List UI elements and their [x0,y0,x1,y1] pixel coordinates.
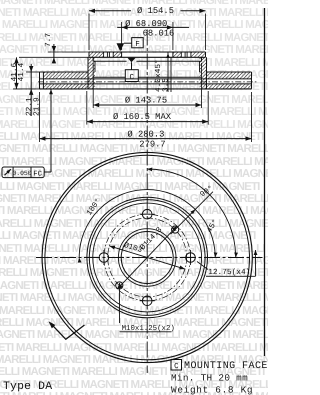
svg-text:41.4: 41.4 [17,62,26,81]
wheel bolt hole 4 (D12.75) [99,253,109,263]
svg-text:MAGNETI MARELLI MAGNETI MARELL: MAGNETI MARELLI MAGNETI MARELLI MAGNETI … [0,292,268,304]
dimension D280.3 / 279.7 (outer diameter) [40,138,252,140]
svg-text:Type DA: Type DA [3,381,52,393]
angular dimension arc 0-90 deg [147,169,236,258]
leader and label M10x1.25(x2) for service holes [119,283,121,323]
leader from tolerance frame to friction surface [44,171,51,173]
dimension D160.5 MAX [87,121,208,123]
service hole M10 (SW) [116,282,123,289]
wheel bolt hole circle (dash-dot PCD) [104,214,191,301]
svg-text:279.7: 279.7 [139,140,165,150]
datum C symbol on mounting face [127,58,135,63]
svg-text:21.9: 21.9 [32,97,41,116]
hub step line to datum C box [93,76,125,78]
centre bore circle with chamfer [121,232,173,284]
runout tolerance frame 0.050 FC [2,167,44,178]
dimension 22.1/21.9 (ring thickness) [30,64,32,116]
section view: hat plate (hatched) with bore and bolt-hole gaps [89,52,104,57]
svg-text:C: C [174,363,179,371]
svg-text:3.5: 3.5 [161,78,170,92]
dimension 41.6/41.4 (overall height) [16,57,18,89]
dimension D154.5 (hat outer diameter) [89,10,131,12]
datum F symbol on hat face [117,43,125,51]
dimension D143.75 [93,104,201,106]
dimension D114.3 line across centre [117,226,177,289]
svg-text:MAGNETI MARELLI MAGNETI MARELL: MAGNETI MARELLI MAGNETI MARELLI MAGNETI … [0,205,268,217]
svg-text:MAGNETI MARELLI MAGNETI MARELL: MAGNETI MARELLI MAGNETI MARELLI MAGNETI … [0,218,268,230]
svg-text:7.7: 7.7 [44,33,53,47]
leader and label 12.75(x4) for bolt holes [197,262,208,270]
svg-text:0.050: 0.050 [12,170,31,177]
section horizontal centerline (dash-dot) [38,81,257,83]
svg-text:12.75(x4): 12.75(x4) [208,268,250,277]
svg-text:MOUNTING FACE: MOUNTING FACE [184,361,268,372]
chamfer leader 4.0x45 and 3.5 [167,53,169,93]
svg-text:MAGNETI MARELLI MAGNETI MARELL: MAGNETI MARELLI MAGNETI MARELLI MAGNETI … [0,255,268,267]
svg-text:Min. TH 20 mm: Min. TH 20 mm [171,372,248,383]
right frame border line [264,8,266,356]
hidden bolt hole ticks in gaps [106,52,108,57]
wheel bolt hole 1 (D12.75) [142,209,152,219]
svg-text:FC: FC [33,170,42,178]
dimension 7.7 (pad height) [48,51,89,53]
bore edges in hat plate [121,52,123,57]
mounting face line under hat [93,60,126,62]
left friction ring (hatched, with vent lane) [44,72,89,79]
left wall of hat (hatched) [88,57,95,89]
svg-text:Ø 280.3: Ø 280.3 [127,130,164,140]
wheel bolt hole 3 (D12.75) [142,296,152,306]
horizontal centerline of disc [36,257,263,259]
hat bolt hole gap edges (left) [103,52,105,57]
service hole M10 (NE) [172,226,179,233]
svg-text:MAGNETI MARELLI MAGNETI MARELL: MAGNETI MARELLI MAGNETI MARELLI MAGNETI … [0,305,268,317]
note C MOUNTING FACE [171,360,182,371]
right friction ring (hatched, with vent lane) [207,72,251,79]
svg-text:Weight 6.8 Kg: Weight 6.8 Kg [171,384,253,395]
45 deg radial extension line [171,192,213,234]
wheel bolt hole 2 (D12.75) [186,253,196,263]
rotation direction arrow [52,325,85,340]
svg-text:Ø 143.75: Ø 143.75 [125,95,167,105]
svg-text:MAGNETI MARELLI MAGNETI MARELL: MAGNETI MARELLI MAGNETI MARELLI MAGNETI … [0,342,268,354]
service hole PCD (dash-dot) [108,218,187,297]
dimension D103 line across centre [109,246,185,269]
svg-text:MAGNETI MARELLI MAGNETI MARELL: MAGNETI MARELLI MAGNETI MARELLI MAGNETI … [0,280,268,292]
svg-text:MAGNETI MARELLI MAGNETI MARELL: MAGNETI MARELLI MAGNETI MARELLI MAGNETI … [0,44,268,56]
right wall of hat (hatched) [200,57,207,89]
svg-text:Ø 160.5 MAX: Ø 160.5 MAX [113,112,172,122]
svg-text:MAGNETI MARELLI MAGNETI MARELL: MAGNETI MARELLI MAGNETI MARELLI MAGNETI … [0,7,268,19]
vertical centerline axis (dash-dot) [146,30,148,374]
svg-text:MAGNETI MARELLI MAGNETI MARELL: MAGNETI MARELLI MAGNETI MARELLI MAGNETI … [0,0,268,7]
svg-text:Ø 154.5: Ø 154.5 [137,6,174,16]
hat outer diameter circle [89,200,205,316]
mounting pad diameter circle [93,203,202,312]
left ring outer rim step line [43,72,45,89]
full-width horizontal edges through ring and hub [40,78,252,80]
braking band inner edge circle [87,197,208,318]
svg-text:C: C [130,73,135,82]
dimension D68.090/68.016 (centre bore) [117,26,189,28]
hat bolt hole gap edges (right) [180,52,182,57]
angular dimension arc 0-180 deg [79,190,215,258]
svg-text:F: F [135,41,140,49]
disc outer edge circles [42,152,252,362]
svg-text:68.016: 68.016 [143,28,175,38]
svg-text:MAGNETI MARELLI MAGNETI MARELL: MAGNETI MARELLI MAGNETI MARELLI MAGNETI … [0,156,268,168]
